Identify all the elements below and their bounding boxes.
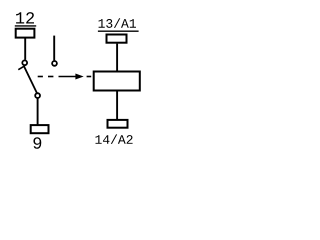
mechanical link dash 2 [48,76,53,78]
switch arm [24,66,37,93]
underline of label 13/A1 [98,30,139,32]
relay coil box [94,72,140,91]
terminal 14/A2 [108,120,128,128]
wire contact B to terminal 9 [37,98,39,124]
arrow shaft [59,76,77,78]
mechanical link dash 1 [38,76,43,78]
terminal 12 [16,29,35,38]
wire stub to contact C [53,36,55,61]
label 12 [16,12,34,23]
wire terminal 12 to contact A [24,38,26,60]
switch arm overshoot tick [18,66,25,70]
label 13/A1 [99,18,136,28]
underline of label 12 [15,25,36,27]
wire terminal 13/A1 to coil [116,44,118,71]
wire coil to terminal 14/A2 [116,92,118,120]
contact circle C [52,61,57,66]
label 14/A2 [95,134,132,144]
label 9 [33,137,41,149]
arrow head [75,74,83,80]
contact circle B (pivot) [35,93,40,98]
terminal 13/A1 [107,35,127,43]
contact circle A [22,60,27,65]
mechanical link dash 3 [87,76,92,78]
terminal 9 [31,125,49,133]
